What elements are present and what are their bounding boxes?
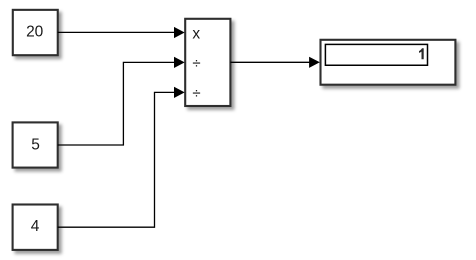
wire divide output -> display — [230, 61, 310, 63]
svg-text:x: x — [192, 26, 200, 43]
svg-text:20: 20 — [26, 23, 44, 40]
divide block U1 — [185, 19, 230, 106]
display inner field — [325, 44, 427, 65]
arrowhead input 3 — [174, 87, 185, 98]
arrowhead display input — [309, 57, 320, 68]
arrowhead input 2 — [174, 57, 185, 68]
svg-text:4: 4 — [31, 218, 40, 235]
wire 5 -> divide input 2 — [58, 62, 175, 145]
svg-text:5: 5 — [31, 136, 40, 153]
wire 20 -> divide input 1 — [58, 31, 175, 33]
constant block 5 — [13, 122, 58, 167]
wire 4 -> divide input 3 — [58, 92, 175, 227]
display block — [321, 40, 456, 85]
constant block 20 — [13, 10, 58, 55]
arrowhead input 1 — [174, 27, 185, 38]
svg-text:÷: ÷ — [192, 85, 200, 102]
display value 1 — [419, 48, 424, 59]
svg-text:÷: ÷ — [192, 55, 200, 72]
constant block 4 — [13, 205, 58, 250]
